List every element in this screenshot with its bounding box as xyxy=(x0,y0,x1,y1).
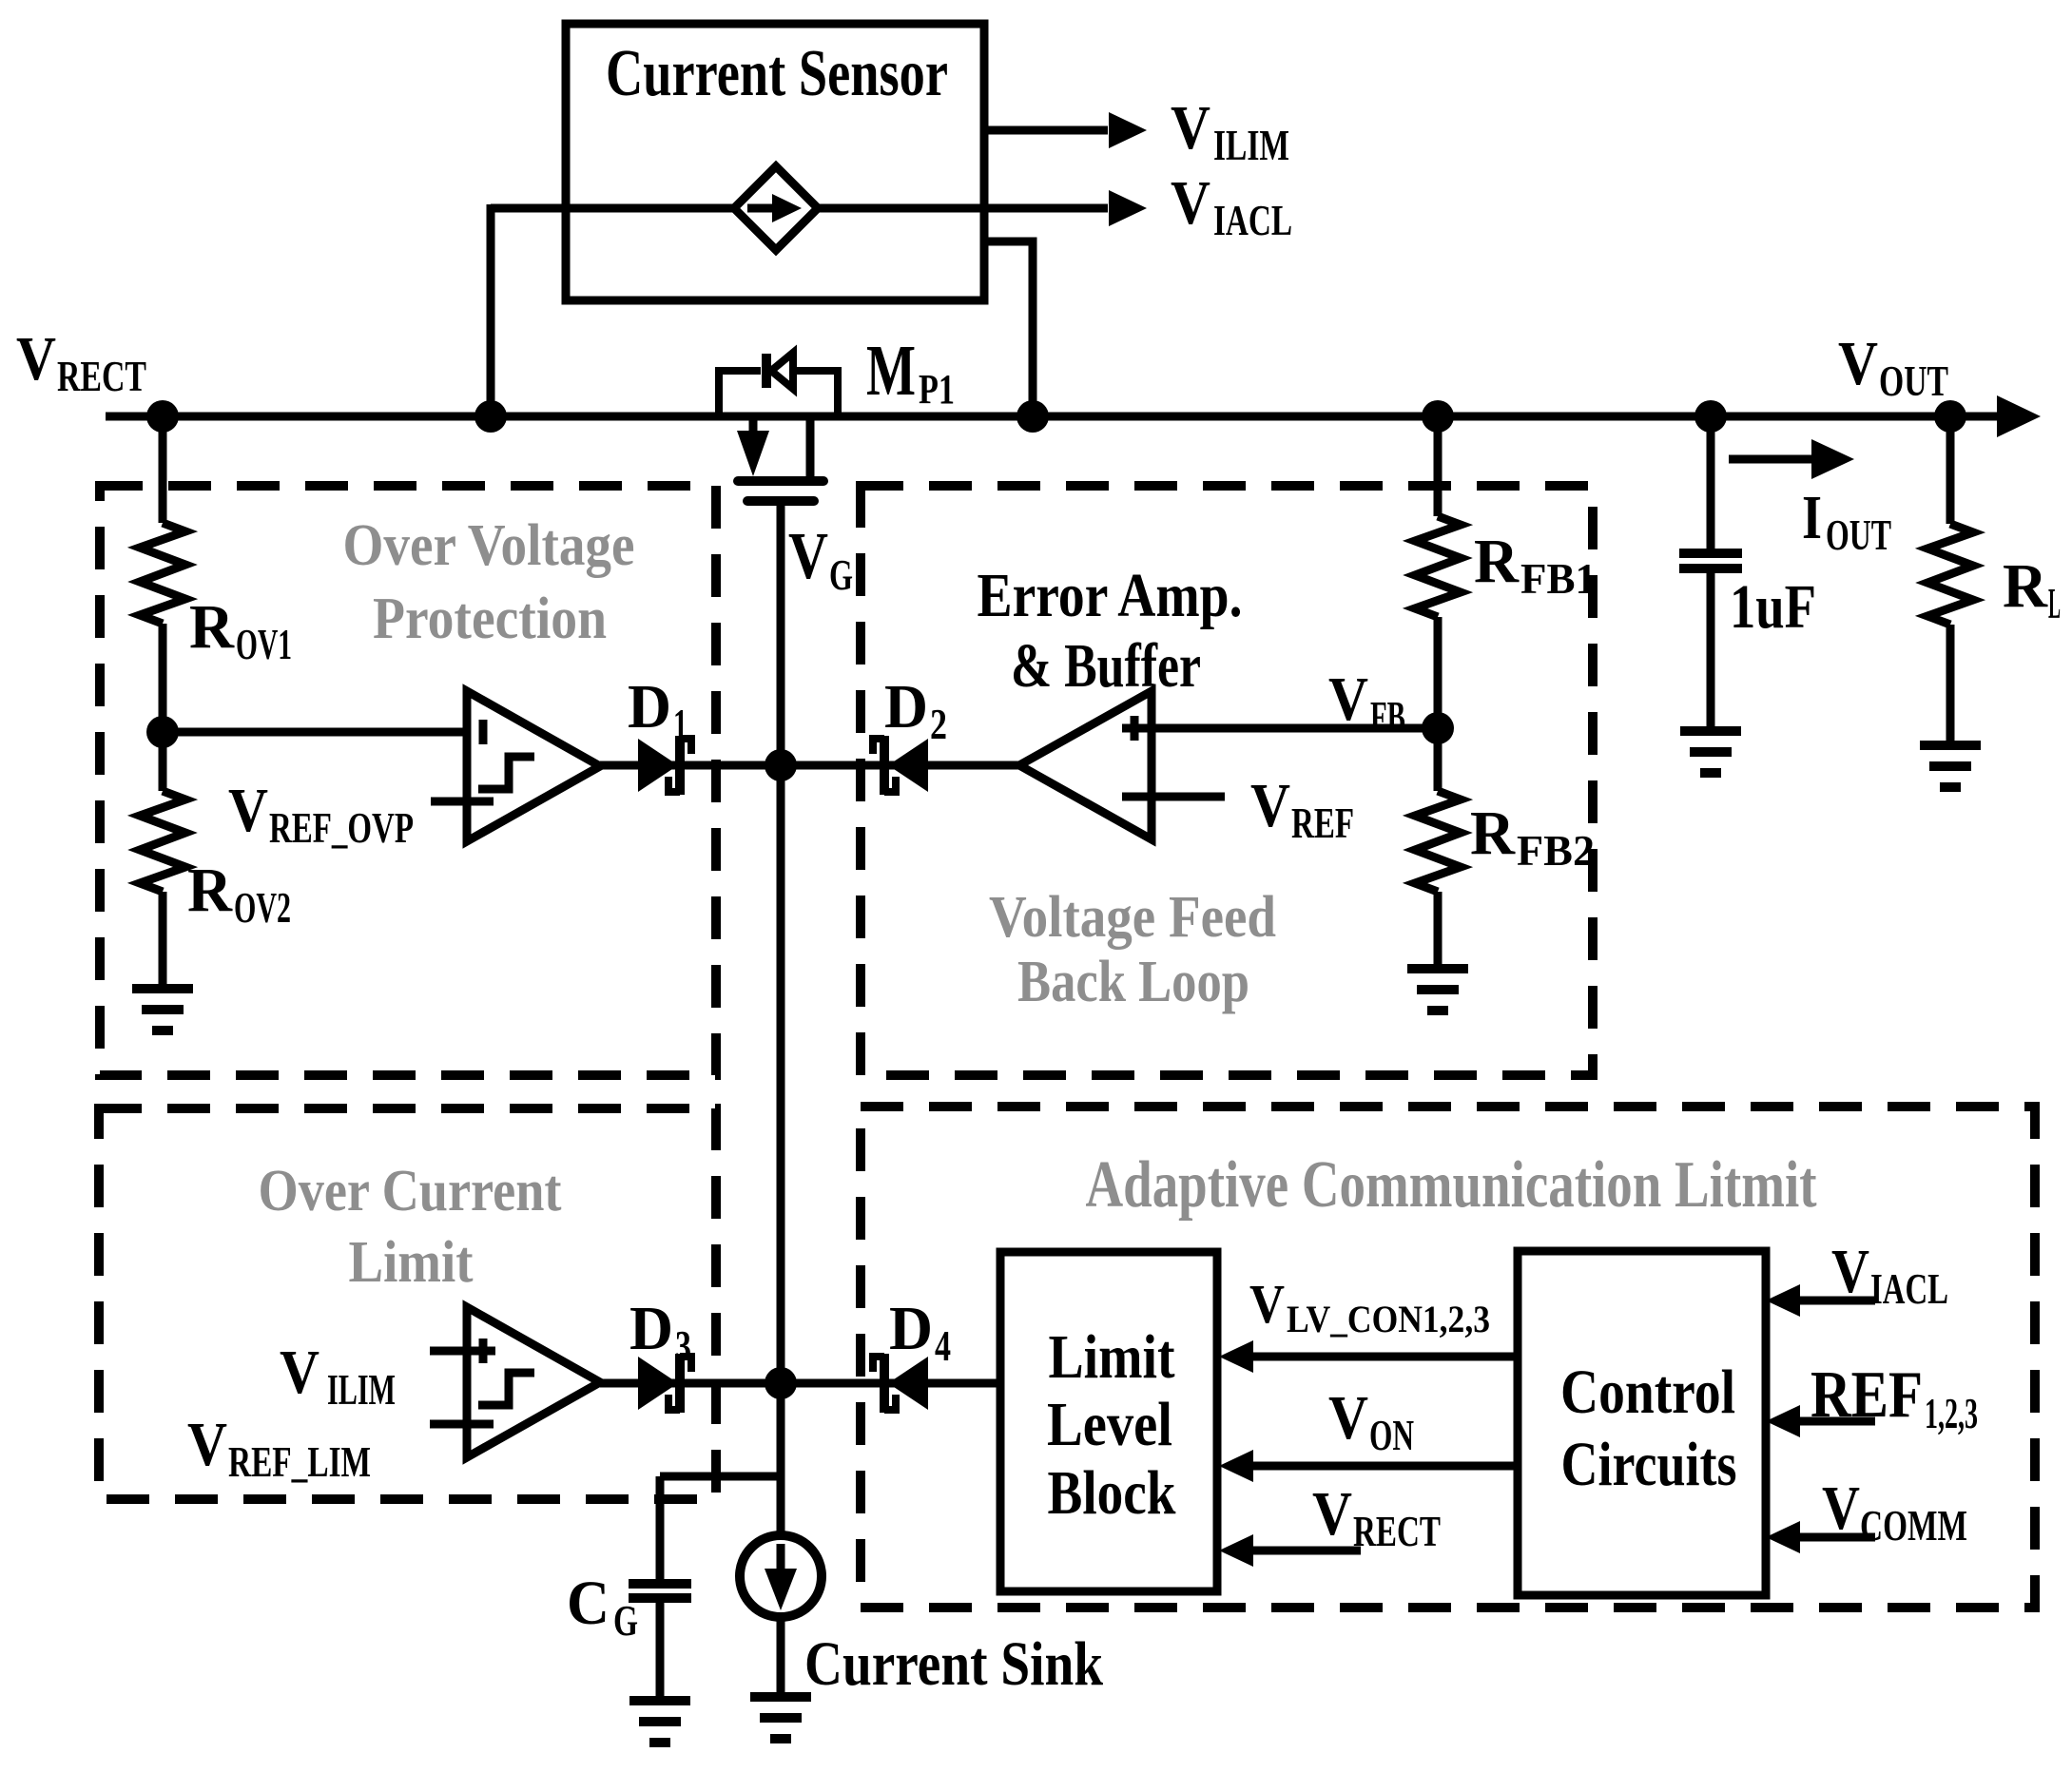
svg-text:R: R xyxy=(187,856,233,925)
dashed box: Voltage Feed Back Loop block xyxy=(861,486,1593,1075)
node VG OCL row junction xyxy=(765,1367,797,1399)
body diode open triangle xyxy=(771,353,793,389)
svg-text:Level: Level xyxy=(1047,1390,1172,1459)
ground below 1uF xyxy=(1680,731,1741,773)
wire OCL output row through D3 D4 xyxy=(600,1379,1000,1388)
svg-text:OV2: OV2 xyxy=(234,883,291,932)
node VG row junction xyxy=(765,749,797,781)
gate bar xyxy=(747,496,814,506)
svg-text:R: R xyxy=(1474,527,1520,596)
svg-text:REF: REF xyxy=(1811,1358,1923,1432)
node ROV divider tap xyxy=(146,716,179,748)
svg-text:R: R xyxy=(2003,551,2048,621)
svg-text:OUT: OUT xyxy=(1826,510,1891,559)
arrowhead REF123 xyxy=(1766,1405,1800,1437)
svg-text:REF_OVP: REF_OVP xyxy=(269,803,414,852)
svg-text:M: M xyxy=(866,331,916,411)
ground below CG xyxy=(629,1701,690,1743)
svg-text:V: V xyxy=(228,776,268,845)
svg-text:R: R xyxy=(189,592,235,662)
svg-text:V: V xyxy=(1171,168,1210,238)
ground below current sink xyxy=(750,1697,811,1739)
node rail RL tap xyxy=(1934,400,1966,433)
source stub with arrow xyxy=(749,416,758,433)
svg-text:COMM: COMM xyxy=(1860,1501,1967,1550)
svg-text:IACL: IACL xyxy=(1213,196,1292,244)
wire gate VG line down to current sink xyxy=(777,501,785,1532)
resistor RL xyxy=(1927,416,1973,745)
node rail RFB1 tap xyxy=(1422,400,1454,433)
svg-text:IACL: IACL xyxy=(1870,1264,1948,1313)
wire sensor row VIACL (through diamond) xyxy=(491,204,736,213)
wire VRECT arrow into limit block xyxy=(1249,1547,1361,1555)
resistor RFB1 xyxy=(1415,416,1461,728)
svg-text:LV_CON1,2,3: LV_CON1,2,3 xyxy=(1287,1298,1490,1340)
svg-text:V: V xyxy=(1838,329,1878,398)
svg-text:ILIM: ILIM xyxy=(1213,121,1289,169)
node VFB xyxy=(1422,712,1454,744)
svg-text:C: C xyxy=(567,1569,610,1638)
svg-text:ON: ON xyxy=(1369,1411,1414,1459)
arrowhead VLV_CON xyxy=(1219,1340,1253,1373)
wire VREF_LIM inverting input xyxy=(430,1420,494,1429)
op-amp error amplifier (left pointing) xyxy=(1019,691,1152,839)
node rail sensor left xyxy=(474,400,507,433)
svg-text:Current Sensor: Current Sensor xyxy=(606,37,948,110)
svg-text:Back Loop: Back Loop xyxy=(1017,950,1249,1014)
svg-text:Current Sink: Current Sink xyxy=(804,1629,1103,1699)
svg-text:V: V xyxy=(187,1410,227,1479)
svg-text:P1: P1 xyxy=(919,366,955,413)
svg-text:Voltage Feed: Voltage Feed xyxy=(989,885,1276,950)
op-amp OCL comparator xyxy=(467,1307,600,1457)
diode D2 (schottky) xyxy=(873,736,928,795)
svg-text:V: V xyxy=(1328,1383,1368,1453)
wire VREF_OVP inverting input xyxy=(431,798,494,806)
svg-text:Block: Block xyxy=(1048,1458,1176,1528)
svg-text:Over Voltage: Over Voltage xyxy=(343,513,635,578)
svg-text:Adaptive Communication Litmit: Adaptive Communication Litmit xyxy=(1086,1148,1817,1222)
dashed box: Adaptive Communication Litmit block xyxy=(861,1107,2035,1608)
svg-text:V: V xyxy=(1822,1473,1860,1543)
diode D4 (schottky) xyxy=(873,1354,928,1413)
channel bar xyxy=(738,476,823,486)
arrowhead VIACL xyxy=(1109,190,1147,226)
Current Sensor box U1 xyxy=(566,24,984,300)
wire sensor output VILIM xyxy=(983,126,1108,135)
svg-text:Limit: Limit xyxy=(1049,1322,1175,1392)
arrowhead VCOMM xyxy=(1766,1521,1800,1553)
node rail sensor right xyxy=(1017,400,1049,433)
wire REF123 arrow into control xyxy=(1796,1417,1875,1426)
dashed box: Over Current Limit block xyxy=(99,1108,716,1499)
dashed box: Over Voltage Protection block xyxy=(100,486,716,1075)
diode D1 (schottky) xyxy=(638,736,691,795)
resistor RFB2 xyxy=(1415,728,1461,969)
arrowhead at VOUT rail end xyxy=(1997,395,2041,437)
svg-text:Circuits: Circuits xyxy=(1561,1430,1737,1499)
svg-text:1uF: 1uF xyxy=(1730,572,1816,642)
wire OVP output row through D1 D2 xyxy=(600,761,1019,770)
svg-text:& Buffer: & Buffer xyxy=(1011,631,1201,701)
resistor ROV1 xyxy=(140,416,185,732)
svg-text:V: V xyxy=(1249,1273,1285,1335)
svg-text:RECT: RECT xyxy=(1353,1507,1441,1555)
svg-text:D: D xyxy=(629,1294,673,1363)
svg-text:V: V xyxy=(16,324,56,394)
wire VCOMM arrow into control xyxy=(1796,1533,1875,1542)
wire sensor left branch to rail xyxy=(487,204,495,416)
capacitor 1uF xyxy=(1679,416,1742,731)
svg-text:V: V xyxy=(1250,771,1290,840)
svg-text:Control: Control xyxy=(1560,1358,1735,1427)
svg-text:FB1: FB1 xyxy=(1520,554,1597,603)
svg-text:R: R xyxy=(1470,799,1516,868)
svg-text:D: D xyxy=(628,672,671,742)
body diode cathode bar xyxy=(762,354,771,388)
svg-text:1,2,3: 1,2,3 xyxy=(1925,1389,1978,1437)
svg-text:Error Amp.: Error Amp. xyxy=(978,561,1243,630)
Control Circuits box xyxy=(1518,1251,1766,1595)
current sink source symbol xyxy=(740,1535,822,1617)
svg-text:REF_LIM: REF_LIM xyxy=(228,1437,371,1486)
svg-text:RECT: RECT xyxy=(57,352,146,400)
wire VFB to error amp noninverting input xyxy=(1122,724,1438,733)
svg-text:L: L xyxy=(2048,579,2061,627)
svg-text:V: V xyxy=(1328,664,1368,734)
wire divider tap to OVP comparator xyxy=(163,728,495,737)
arrowhead VRECT input xyxy=(1219,1534,1253,1567)
arrowhead VILIM xyxy=(1109,112,1147,148)
wire VIACL arrow into control xyxy=(1796,1297,1875,1305)
arrowhead VIACL input xyxy=(1766,1284,1800,1317)
ground below ROV2 xyxy=(132,989,193,1030)
svg-text:G: G xyxy=(613,1596,638,1645)
svg-text:OUT: OUT xyxy=(1879,356,1948,405)
current source symbol (diamond) inside sensor xyxy=(734,166,818,250)
body diode loop wire xyxy=(719,371,761,416)
svg-text:D: D xyxy=(884,672,928,742)
svg-text:4: 4 xyxy=(935,1321,951,1370)
svg-text:G: G xyxy=(829,550,853,599)
op-amp OVP comparator xyxy=(467,691,600,841)
arrowhead IOUT xyxy=(1811,439,1854,479)
svg-text:V: V xyxy=(788,520,828,593)
svg-text:OV1: OV1 xyxy=(236,620,292,668)
wire VLV_CON arrow control to limit xyxy=(1249,1353,1518,1361)
node rail 1uF tap xyxy=(1694,400,1727,433)
capacitor CG xyxy=(629,1476,782,1701)
svg-text:D: D xyxy=(889,1294,933,1363)
svg-text:V: V xyxy=(1312,1479,1352,1549)
wire main rail VRECT to VOUT xyxy=(106,413,2001,421)
wire VREF inverting input xyxy=(1122,793,1225,801)
svg-text:2: 2 xyxy=(930,700,947,748)
diode D3 (schottky) xyxy=(638,1354,691,1413)
wire IOUT arrow xyxy=(1729,455,1814,464)
svg-text:FB2: FB2 xyxy=(1517,826,1595,875)
svg-text:FB: FB xyxy=(1370,692,1405,741)
svg-text:1: 1 xyxy=(673,700,687,748)
Limit Level Block box xyxy=(1000,1252,1217,1591)
svg-text:Limit: Limit xyxy=(349,1230,474,1295)
svg-text:V: V xyxy=(280,1338,320,1407)
wire VON arrow control to limit xyxy=(1249,1462,1518,1471)
ground below RL xyxy=(1920,745,1981,787)
wire VILIM noninverting input xyxy=(430,1347,495,1356)
svg-text:V: V xyxy=(1831,1237,1869,1306)
svg-text:Over Current: Over Current xyxy=(259,1159,562,1223)
arrowhead VON xyxy=(1219,1450,1253,1482)
resistor ROV2 xyxy=(140,732,185,989)
svg-text:V: V xyxy=(1171,93,1210,163)
svg-text:ILIM: ILIM xyxy=(327,1365,396,1414)
transistor MP1 (PMOS pass device) xyxy=(719,353,838,501)
svg-text:REF: REF xyxy=(1291,799,1354,847)
node rail ROV1 tap xyxy=(146,400,179,433)
wire sensor right branch to rail xyxy=(983,241,1033,416)
ground below RFB2 xyxy=(1407,969,1468,1011)
drain stub xyxy=(806,416,815,478)
wire current sink to ground xyxy=(777,1616,785,1697)
svg-text:Protection: Protection xyxy=(373,587,607,651)
svg-text:I: I xyxy=(1802,483,1822,552)
svg-text:3: 3 xyxy=(675,1321,691,1370)
